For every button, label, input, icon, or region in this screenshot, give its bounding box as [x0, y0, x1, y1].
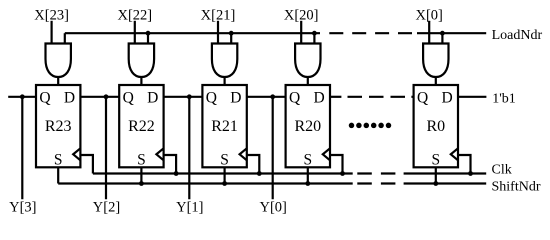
wire LoadNdr tap to gate R20	[313, 33, 315, 43]
junction dot LoadNdr / gate R20	[312, 31, 317, 36]
svg-text:Q: Q	[39, 90, 50, 107]
junction dot LoadNdr / gate R22	[146, 31, 151, 36]
wire Q output stub of R23 (node Y[3] feed)	[8, 96, 36, 98]
flip-flop R23	[36, 85, 80, 168]
wire clock input of R23	[80, 155, 93, 174]
svg-text:D: D	[313, 90, 324, 107]
AND gate G21	[212, 44, 237, 78]
wire Y[0] output	[272, 97, 274, 200]
junction dot Clk / R22	[174, 171, 179, 176]
svg-text:Y[2]: Y[2]	[93, 200, 120, 216]
wire gate G20 output	[307, 77, 309, 85]
svg-text:S: S	[220, 151, 229, 168]
svg-text:D: D	[147, 90, 158, 107]
wire X[23] stub	[50, 21, 52, 44]
svg-text:Q: Q	[206, 90, 217, 107]
svg-text:R20: R20	[294, 118, 321, 135]
LoadNdr bus	[65, 32, 486, 34]
svg-text:Y[0]: Y[0]	[260, 200, 287, 216]
junction dot ShiftNdr / R22	[139, 181, 144, 186]
AND gate G0	[423, 44, 448, 78]
flip-flop R20	[286, 85, 330, 168]
wire X[20] stub	[300, 21, 302, 44]
wire LoadNdr tap to gate R21	[230, 33, 232, 43]
svg-text:Q: Q	[417, 90, 428, 107]
junction dot ShiftNdr / R20	[305, 181, 310, 186]
junction dot LoadNdr / gate R21	[229, 31, 234, 36]
AND gate G23	[46, 44, 71, 78]
svg-text:R22: R22	[128, 118, 155, 135]
wire X[0] stub	[428, 21, 430, 44]
wire S input of R0	[435, 167, 437, 183]
junction dot node Y[2]	[104, 94, 109, 99]
svg-text:D: D	[230, 90, 241, 107]
svg-text:Q: Q	[289, 90, 300, 107]
ShiftNdr bus	[58, 182, 486, 184]
wire S input of R23	[57, 167, 59, 183]
flip-flop R21	[202, 85, 246, 168]
wire clock input of R0	[458, 155, 471, 174]
svg-text:S: S	[431, 151, 440, 168]
svg-text:Clk: Clk	[492, 163, 512, 178]
wire LoadNdr tap to gate R22	[147, 33, 149, 43]
Clk bus	[93, 172, 486, 174]
junction dot node Y[3]	[20, 94, 25, 99]
svg-text:D: D	[441, 90, 452, 107]
wire dashed continuation R20 to R0	[330, 96, 414, 98]
junction dot Clk / R0	[468, 171, 473, 176]
junction dot LoadNdr / gate R0	[440, 31, 445, 36]
junction dot node Y[1]	[187, 94, 192, 99]
wire clock input of R20	[330, 155, 343, 174]
wire X[22] stub	[134, 21, 136, 44]
svg-text:1'b1: 1'b1	[492, 92, 516, 107]
svg-text:ShiftNdr: ShiftNdr	[492, 179, 541, 194]
svg-text:Y[1]: Y[1]	[176, 200, 203, 216]
flip-flop R0	[414, 85, 458, 168]
ellipsis dots (register continuation)	[349, 123, 392, 128]
wire gate G23 output	[57, 77, 59, 85]
wire X[21] stub	[217, 21, 219, 44]
AND gate G22	[129, 44, 154, 78]
svg-text:Y[3]: Y[3]	[9, 200, 36, 216]
wire node between R22 and R21	[164, 96, 203, 98]
svg-text:LoadNdr: LoadNdr	[492, 28, 543, 43]
wire node between R23 and R22	[80, 96, 119, 98]
svg-text:Q: Q	[123, 90, 134, 107]
wire 1'b1 to D of R0	[458, 96, 486, 98]
wire Y[3] output	[21, 97, 23, 200]
flip-flop R22	[119, 85, 163, 168]
svg-text:S: S	[54, 151, 63, 168]
svg-text:D: D	[64, 90, 75, 107]
AND gate G20	[295, 44, 320, 78]
wire gate G21 output	[224, 77, 226, 85]
junction dot Clk / R20	[340, 171, 345, 176]
wire gate G0 output	[435, 77, 437, 85]
wire LoadNdr tap to gate R23	[64, 33, 66, 43]
svg-text:R23: R23	[45, 118, 72, 135]
junction dot ShiftNdr / R21	[222, 181, 227, 186]
wire LoadNdr tap to gate R0	[441, 33, 443, 43]
svg-text:S: S	[303, 151, 312, 168]
wire clock input of R21	[247, 155, 259, 174]
wire S input of R20	[307, 167, 309, 183]
junction dot node Y[0]	[270, 94, 275, 99]
wire clock input of R22	[164, 155, 177, 174]
wire S input of R22	[140, 167, 142, 183]
svg-text:S: S	[137, 151, 146, 168]
wire Y[2] output	[105, 97, 107, 200]
wire gate G22 output	[140, 77, 142, 85]
wire node between R21 and R20	[247, 96, 286, 98]
svg-text:R0: R0	[426, 118, 445, 135]
junction dot Clk / R21	[257, 171, 262, 176]
wire S input of R21	[224, 167, 226, 183]
junction dot ShiftNdr / R0	[433, 181, 438, 186]
svg-text:R21: R21	[211, 118, 238, 135]
wire Y[1] output	[188, 97, 190, 200]
